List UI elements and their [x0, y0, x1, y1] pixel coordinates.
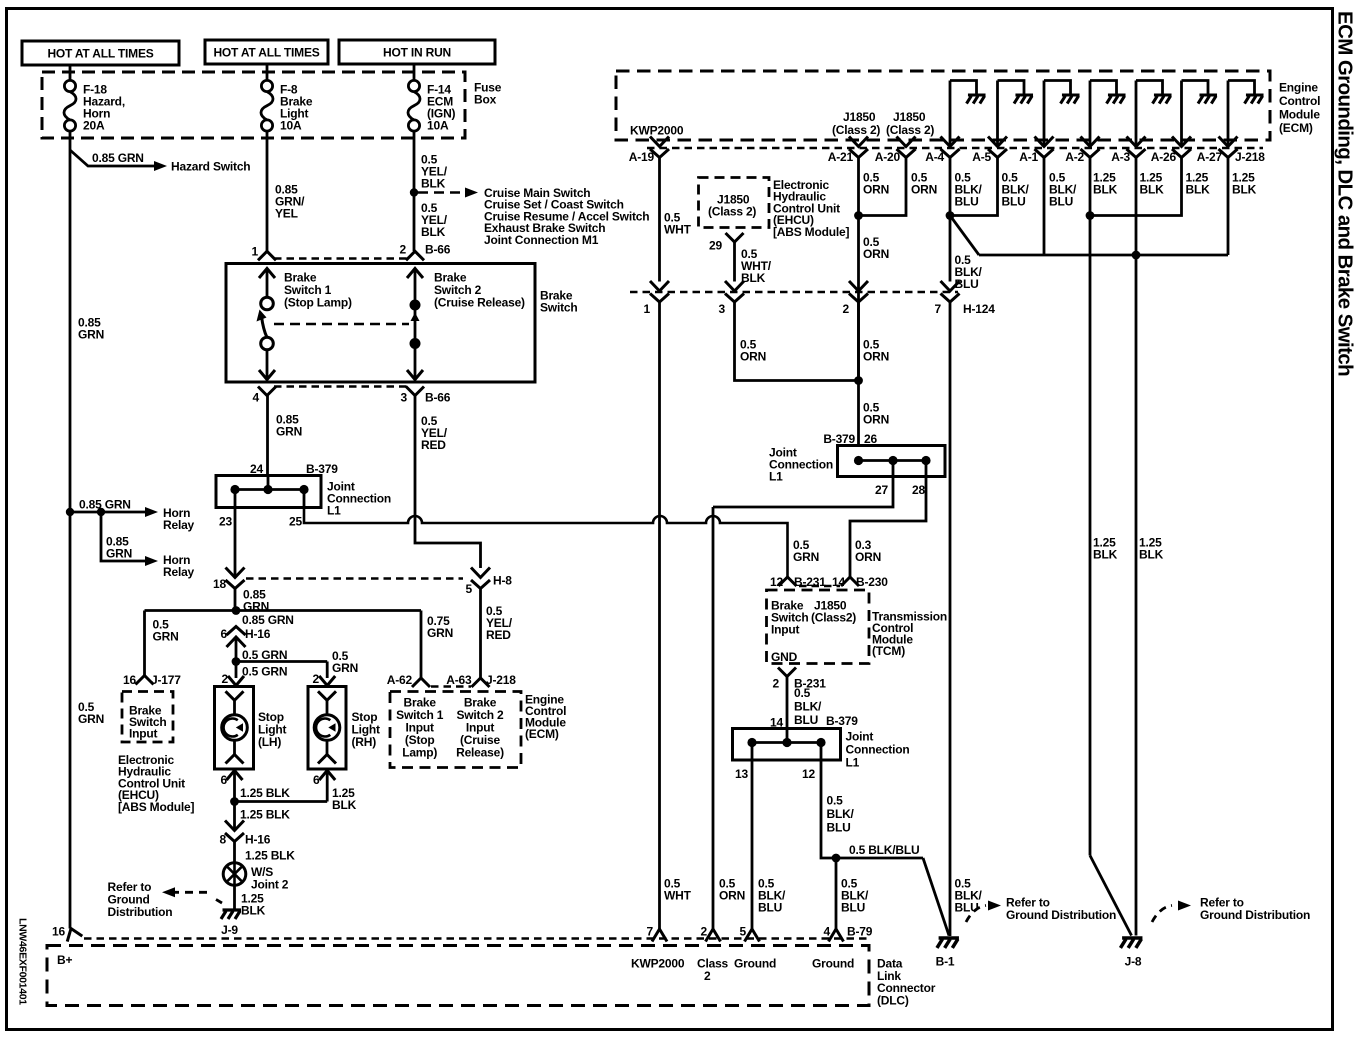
- EHCU pin 29: [726, 233, 744, 242]
- wire 0.5 BLK/BLU L1 pin 13 to DLC pin 5: [751, 760, 754, 929]
- wire 0.5 ORN A-20 join A-21: [859, 158, 907, 216]
- junction dot: [832, 854, 841, 863]
- svg-text:(ECM): (ECM): [525, 727, 559, 741]
- svg-text:6: 6: [221, 773, 228, 787]
- svg-text:J-177: J-177: [151, 673, 181, 687]
- svg-text:[ABS Module]: [ABS Module]: [118, 800, 194, 814]
- EHCU brake switch input box (dashed): [122, 692, 173, 743]
- svg-text:A-27: A-27: [1197, 150, 1223, 164]
- svg-text:YEL: YEL: [275, 207, 298, 221]
- ground return LH stop light: [227, 771, 243, 781]
- svg-text:B-379: B-379: [306, 462, 338, 476]
- ground return RH stop light: [319, 771, 335, 781]
- svg-text:BLU: BLU: [841, 901, 865, 915]
- junction dot pin 23: [230, 485, 239, 494]
- diagonal wire to ground B-1: [923, 858, 949, 936]
- BLK join horizontal: [979, 254, 1228, 257]
- brake switch 2 (cruise release) contacts: [407, 269, 423, 279]
- junction dot: [854, 376, 863, 385]
- svg-text:B-1: B-1: [936, 955, 955, 969]
- ground join horizontal wire: [235, 800, 328, 803]
- svg-text:12: 12: [802, 767, 815, 781]
- wire 0.5 WHT ECM A-19 to DLC pin 7: [658, 158, 661, 282]
- svg-text:Switch: Switch: [540, 301, 577, 315]
- svg-text:6: 6: [313, 773, 320, 787]
- svg-text:25: 25: [289, 515, 302, 529]
- svg-text:Joint: Joint: [846, 730, 874, 744]
- cruise branch dashed wire: [418, 191, 464, 194]
- svg-text:10A: 10A: [280, 119, 302, 133]
- svg-text:KWP2000: KWP2000: [631, 957, 685, 971]
- svg-text:Module: Module: [1279, 108, 1320, 122]
- svg-text:HOT AT ALL TIMES: HOT AT ALL TIMES: [47, 47, 153, 61]
- svg-text:(DLC): (DLC): [877, 993, 909, 1007]
- svg-text:ORN: ORN: [740, 350, 766, 364]
- svg-text:Ground Distribution: Ground Distribution: [1200, 908, 1310, 922]
- inline connector 6 H-16 (flipped): [227, 627, 246, 648]
- TCM pin 2 B-231 (GND): [778, 668, 796, 677]
- DLC pin 5 Ground: [745, 929, 760, 942]
- svg-text:J-218: J-218: [1235, 150, 1265, 164]
- ECM internal ground: [1198, 95, 1217, 104]
- wire 1.25 BLK (A-3 group) down to ground J-8: [1135, 158, 1138, 936]
- connector A-63 / J-218 at ECM: [472, 678, 490, 687]
- svg-text:2: 2: [313, 672, 320, 686]
- inline connector 5 H-8: [471, 568, 490, 589]
- svg-text:BLK: BLK: [241, 904, 266, 918]
- svg-text:ORN: ORN: [855, 550, 881, 564]
- svg-text:4: 4: [824, 925, 831, 939]
- harness boundary (dashed) at brake switch bottom: [274, 385, 407, 388]
- svg-text:A-19: A-19: [629, 150, 655, 164]
- data link connector DLC box (dashed): [47, 946, 869, 1006]
- svg-text:3: 3: [401, 391, 408, 405]
- svg-text:7: 7: [935, 302, 942, 316]
- ground B-1: [937, 938, 959, 948]
- svg-text:1: 1: [644, 302, 651, 316]
- wire 0.5 BLK/BLU A-5 join A-4: [950, 158, 998, 216]
- svg-text:5: 5: [466, 582, 473, 596]
- wire 0.85 GRN from fuse F-18 down to DLC pin 16: [69, 138, 72, 929]
- connector pin 1 at brake switch: [258, 251, 276, 260]
- svg-text:ORN: ORN: [719, 889, 745, 903]
- svg-text:GRN: GRN: [78, 712, 104, 726]
- junction dot stop light split: [232, 657, 241, 666]
- connector A-19: [650, 137, 669, 158]
- svg-text:2: 2: [843, 302, 850, 316]
- svg-text:8: 8: [220, 833, 227, 847]
- svg-text:BLU: BLU: [955, 195, 979, 209]
- svg-text:BLK: BLK: [1093, 548, 1118, 562]
- svg-text:ORN: ORN: [863, 183, 889, 197]
- svg-text:0.85 GRN: 0.85 GRN: [92, 151, 144, 165]
- svg-text:0.5 GRN: 0.5 GRN: [242, 665, 287, 679]
- svg-text:ORN: ORN: [863, 247, 889, 261]
- svg-text:Engine: Engine: [1279, 81, 1318, 95]
- svg-text:A-5: A-5: [972, 150, 991, 164]
- svg-text:Joint 2: Joint 2: [251, 878, 289, 892]
- TCM pin 14 B-230: [841, 577, 859, 586]
- svg-text:23: 23: [219, 515, 232, 529]
- svg-text:1.25 BLK: 1.25 BLK: [240, 786, 290, 800]
- svg-text:BLK: BLK: [421, 177, 446, 191]
- wire 0.85 GRN pin 23 down to connector 18: [234, 508, 237, 577]
- svg-text:Lamp): Lamp): [402, 746, 437, 760]
- fuse box (dashed): [42, 72, 465, 138]
- svg-text:GRN: GRN: [332, 661, 358, 675]
- svg-text:Connection: Connection: [846, 743, 910, 757]
- wire 0.5 BLK/BLU TCM GND to L1 pin 14: [786, 677, 789, 729]
- svg-text:A-21: A-21: [828, 150, 854, 164]
- junction dot: [1086, 211, 1095, 220]
- refer to ground distribution (B-1) dashed arrow: [966, 906, 986, 923]
- joint connection L1 connector B-379 (upper left): [216, 476, 321, 508]
- DLC harness dashed rail: [84, 937, 869, 940]
- stop light LH bulb: [226, 691, 244, 700]
- svg-text:BLU: BLU: [758, 901, 782, 915]
- svg-text:GRN: GRN: [793, 550, 819, 564]
- svg-text:BLK: BLK: [1093, 183, 1118, 197]
- svg-text:0.85 GRN: 0.85 GRN: [79, 498, 131, 512]
- svg-text:GRN: GRN: [78, 328, 104, 342]
- ECM internal ground: [1014, 95, 1033, 104]
- diagonal join: [950, 216, 979, 256]
- ground J-9: [221, 910, 241, 919]
- svg-text:28: 28: [912, 483, 925, 497]
- ECM internal ground: [1153, 95, 1172, 104]
- svg-text:GND: GND: [771, 650, 798, 664]
- svg-text:BLK: BLK: [1140, 183, 1165, 197]
- harness boundary (dashed) at brake switch top: [274, 257, 407, 260]
- svg-text:Box: Box: [474, 93, 497, 107]
- svg-text:L1: L1: [846, 756, 860, 770]
- svg-text:Ground: Ground: [812, 957, 854, 971]
- svg-text:B-66: B-66: [425, 391, 451, 405]
- ECM harness dashed rail: [647, 147, 1263, 150]
- ECM internal ground: [1245, 95, 1264, 104]
- junction dot pin 24: [263, 485, 272, 494]
- svg-text:A-20: A-20: [875, 150, 901, 164]
- wire 0.5 BLK/BLU to DLC pin 4: [835, 858, 838, 929]
- svg-text:WHT: WHT: [664, 223, 692, 237]
- svg-text:BLU: BLU: [955, 901, 979, 915]
- junction dot: [1132, 251, 1141, 260]
- ECM internal ground: [1061, 95, 1080, 104]
- svg-text:GRN: GRN: [276, 424, 302, 438]
- ECM ground pin A-4: [949, 81, 952, 147]
- wire 1.25 BLK A-2: [1089, 158, 1092, 216]
- inline connector 1: [650, 281, 669, 302]
- EHCU J1850 box (dashed): [699, 178, 770, 228]
- ECM ground pin A-26: [1180, 81, 1183, 147]
- wire 0.5 WHT/BLK pin 29 down: [733, 242, 736, 282]
- svg-text:GRN: GRN: [153, 629, 179, 643]
- svg-text:J1850: J1850: [843, 110, 876, 124]
- svg-text:0.5: 0.5: [827, 794, 844, 808]
- svg-text:18: 18: [213, 577, 226, 591]
- svg-text:2: 2: [400, 243, 407, 257]
- harness dashes at A-62/A-63: [431, 685, 471, 688]
- fuse F-14 ECM (IGN) 10A: [413, 64, 416, 81]
- svg-text:BLK: BLK: [1232, 183, 1257, 197]
- svg-text:Hazard Switch: Hazard Switch: [171, 160, 250, 174]
- junction dot at H-16 wire: [232, 606, 241, 615]
- svg-text:B-379: B-379: [823, 432, 855, 446]
- inline connector 3: [725, 281, 744, 302]
- svg-text:BLU: BLU: [1049, 195, 1073, 209]
- wire 0.85 GRN distribution (horizontal): [145, 609, 422, 612]
- svg-text:0.85 GRN: 0.85 GRN: [242, 613, 294, 627]
- wire 0.5 YEL/RED H-8 down to ECM A-63: [479, 589, 482, 679]
- ECM ground pin A-1: [1043, 81, 1046, 147]
- svg-text:J1850: J1850: [893, 110, 926, 124]
- svg-text:(Cruise Release): (Cruise Release): [434, 296, 525, 310]
- svg-text:(Class 2): (Class 2): [708, 205, 756, 219]
- DLC pin 4 Ground B-79: [829, 929, 844, 942]
- DLC pin 2 Class 2: [706, 929, 721, 942]
- stop light RH bulb: [318, 691, 336, 700]
- svg-text:L1: L1: [327, 504, 341, 518]
- wire 0.5 BLK/BLU A-4: [949, 158, 952, 216]
- junction dot: [854, 211, 863, 220]
- wire to LH stop light: [235, 662, 238, 679]
- svg-text:(Class 2): (Class 2): [832, 123, 880, 137]
- svg-text:Release): Release): [456, 746, 504, 760]
- svg-text:GRN: GRN: [106, 546, 132, 560]
- wire from connector 18 to GRN distribution: [234, 589, 237, 612]
- fuse F-8 Brake Light 10A: [266, 64, 269, 81]
- svg-text:J-218: J-218: [486, 673, 516, 687]
- svg-text:12: 12: [770, 575, 783, 589]
- svg-text:BLK: BLK: [1186, 183, 1211, 197]
- harness dashes at TCM pins: [799, 585, 840, 588]
- wire 1.25 BLK (A-2 group) down to ground J-8: [1089, 216, 1092, 856]
- svg-text:Ground: Ground: [734, 957, 776, 971]
- refer to ground distribution (J-9) dashed arrow: [212, 897, 222, 903]
- connector pin 4 at brake switch bottom: [258, 387, 276, 396]
- svg-text:HOT AT ALL TIMES: HOT AT ALL TIMES: [213, 46, 319, 60]
- svg-text:A-26: A-26: [1151, 150, 1177, 164]
- wire H-16 to stop light junction: [235, 639, 238, 662]
- svg-text:RED: RED: [486, 628, 511, 642]
- power feed label: HOT IN RUN: [339, 40, 495, 64]
- svg-text:16: 16: [52, 925, 65, 939]
- svg-text:B-66: B-66: [425, 243, 451, 257]
- svg-text:0.5 GRN: 0.5 GRN: [242, 648, 287, 662]
- junction dot pin 26: [854, 456, 863, 465]
- svg-text:A-3: A-3: [1111, 150, 1130, 164]
- svg-text:0.5: 0.5: [794, 686, 811, 700]
- wire to horn relay 1: [70, 511, 148, 514]
- svg-text:B-79: B-79: [847, 925, 873, 939]
- svg-text:2: 2: [773, 677, 780, 691]
- wire to RH stop light: [326, 662, 329, 679]
- svg-text:Input: Input: [129, 727, 158, 741]
- wire 0.5 BLK/BLU pin 12 to DLC pin 4 and B-1: [821, 760, 923, 858]
- svg-text:2: 2: [701, 925, 708, 939]
- stop light RH box: [308, 687, 346, 770]
- junction dot (cruise branch): [410, 188, 418, 196]
- svg-text:2: 2: [704, 969, 711, 983]
- svg-text:(LH): (LH): [258, 735, 281, 749]
- ECM internal ground: [967, 95, 986, 104]
- diagonal to ground J-8: [1090, 856, 1132, 936]
- connector 16 J-177 at EHCU: [136, 676, 154, 685]
- wire 1.25 BLK down to connector 8: [233, 802, 236, 830]
- svg-text:BLU: BLU: [955, 277, 979, 291]
- junction dot pin 14: [782, 738, 791, 747]
- svg-text:BLK: BLK: [421, 225, 446, 239]
- transmission control module TCM box (dashed): [767, 590, 870, 664]
- stop light feed horizontal: [236, 660, 327, 663]
- wire 0.5 YEL/BLK from fuse F-14 to brake switch pin 2: [413, 138, 416, 251]
- junction dot pin 25: [299, 485, 308, 494]
- weld splice W/S Joint 2: [223, 863, 246, 886]
- svg-text:16: 16: [123, 673, 136, 687]
- svg-text:(Stop Lamp): (Stop Lamp): [284, 296, 352, 310]
- stop light LH box: [215, 687, 254, 770]
- connector pin 3 B-66 at brake switch bottom: [406, 387, 424, 396]
- inline connector 7 H-124: [941, 281, 960, 302]
- svg-text:B-230: B-230: [856, 575, 888, 589]
- svg-text:A-63: A-63: [446, 673, 472, 687]
- power feed label: HOT AT ALL TIMES (center): [205, 40, 328, 64]
- svg-text:13: 13: [735, 767, 748, 781]
- svg-text:J-9: J-9: [221, 923, 238, 937]
- svg-text:0.5 BLK/BLU: 0.5 BLK/BLU: [849, 843, 919, 857]
- svg-text:27: 27: [875, 483, 888, 497]
- inline connector 8 H-16: [225, 821, 244, 842]
- ECM ground pin A-5: [996, 81, 999, 147]
- svg-text:RED: RED: [421, 438, 446, 452]
- svg-text:LNW46EXF001401: LNW46EXF001401: [17, 918, 29, 1005]
- svg-text:(Class2): (Class2): [811, 611, 856, 625]
- brake signal wire 0.85 GRN pin 25 to TCM pin 12 (with hops): [304, 508, 788, 578]
- svg-text:[ABS Module]: [ABS Module]: [773, 225, 849, 239]
- DLC pin 7 KWP2000: [652, 929, 667, 942]
- svg-text:H-16: H-16: [245, 627, 271, 641]
- svg-text:ORN: ORN: [863, 350, 889, 364]
- junction dot: [946, 211, 955, 220]
- wire 0.5 YEL/RED pin 3 toward H-8: [415, 396, 481, 569]
- svg-text:14: 14: [770, 716, 783, 730]
- svg-text:BLU: BLU: [794, 713, 818, 727]
- svg-text:4: 4: [253, 391, 260, 405]
- svg-text:WHT: WHT: [664, 889, 692, 903]
- svg-text:(RH): (RH): [352, 735, 377, 749]
- joint connection L1 connector B-379 (upper right): [838, 446, 946, 477]
- ECM ground pin A-27 / J-218: [1227, 81, 1230, 147]
- svg-text:H-16: H-16: [245, 833, 271, 847]
- wire Class 2 serial data to DLC pin 2: [712, 507, 715, 929]
- wire 0.5 ORN A-21 down to L1 pin 26: [857, 158, 860, 446]
- connector 16 at DLC: [63, 926, 82, 942]
- wire 0.5 BLK/BLU A-1 down to BLK join: [1043, 158, 1046, 256]
- wire to horn relay 2: [101, 512, 148, 561]
- wire 0.3 ORN L1 pin 28 to TCM pin 14: [850, 477, 926, 578]
- connector pin 2 B-66 at brake switch: [406, 251, 424, 260]
- svg-text:BLK/: BLK/: [827, 807, 855, 821]
- svg-text:Joint Connection M1: Joint Connection M1: [484, 233, 599, 247]
- svg-text:B-231: B-231: [794, 575, 826, 589]
- wire 0.5 GRN to EHCU J-177: [143, 611, 146, 676]
- svg-text:10A: 10A: [427, 119, 449, 133]
- ECM internal ground: [1107, 95, 1126, 104]
- wire 1.25 BLK to ground J-9: [233, 885, 236, 909]
- wire 0.5 BLK/BLU H-124 pin 7 down to ground B-1: [949, 302, 952, 936]
- svg-text:2: 2: [222, 672, 229, 686]
- junction dot pin 12: [816, 738, 825, 747]
- svg-text:BLK/: BLK/: [794, 700, 822, 714]
- wire to W/S splice: [233, 842, 236, 864]
- svg-text:Input: Input: [771, 623, 800, 637]
- fuse F-18 Hazard, Horn 20A: [69, 66, 72, 81]
- svg-text:BLK: BLK: [1139, 548, 1164, 562]
- svg-text:29: 29: [709, 239, 722, 253]
- svg-text:H-124: H-124: [963, 302, 995, 316]
- svg-text:Relay: Relay: [163, 565, 195, 579]
- svg-text:ORN: ORN: [911, 183, 937, 197]
- junction dot ground join: [230, 797, 239, 806]
- svg-text:Distribution: Distribution: [108, 905, 173, 919]
- ground J-8: [1120, 938, 1142, 948]
- svg-text:ECM Grounding, DLC and Brake S: ECM Grounding, DLC and Brake Switch: [1334, 11, 1357, 376]
- svg-text:GRN: GRN: [427, 626, 453, 640]
- engine control module ECM box (dashed, top): [616, 71, 1270, 140]
- ECM ground pin A-3: [1135, 81, 1138, 147]
- junction dot pin 28: [921, 456, 930, 465]
- svg-text:HOT IN RUN: HOT IN RUN: [383, 46, 451, 60]
- wire 0.85 GRN/YEL from fuse F-8 to brake switch pin 1: [266, 138, 269, 251]
- junction dot pin 27: [888, 456, 897, 465]
- brake switch box: [226, 264, 535, 383]
- connector A-21: [849, 137, 868, 158]
- svg-text:ORN: ORN: [863, 413, 889, 427]
- svg-text:1.25 BLK: 1.25 BLK: [245, 849, 295, 863]
- svg-text:BLU: BLU: [827, 821, 851, 835]
- junction dot (horn relay 2 branch): [97, 508, 105, 516]
- svg-text:7: 7: [647, 925, 654, 939]
- svg-text:20A: 20A: [83, 119, 105, 133]
- ECM box (dashed, lower) with brake switch inputs: [390, 692, 521, 768]
- junction dot (horn relay feed): [66, 508, 74, 516]
- wire continues to H-124 pin 7: [949, 216, 952, 282]
- svg-text:(TCM): (TCM): [872, 644, 905, 658]
- svg-text:Ground Distribution: Ground Distribution: [1006, 908, 1116, 922]
- svg-text:Control: Control: [1279, 94, 1320, 108]
- switch coupling dashed link: [274, 323, 409, 326]
- wire 1.25 BLK A-27 to BLK join: [1227, 158, 1230, 256]
- power feed label: HOT AT ALL TIMES (left): [22, 41, 179, 65]
- svg-text:A-4: A-4: [925, 150, 944, 164]
- TCM pin 12 B-231: [779, 577, 797, 586]
- hazard switch branch wire: [70, 150, 156, 166]
- svg-text:J-8: J-8: [1125, 955, 1142, 969]
- svg-text:H-8: H-8: [493, 574, 512, 588]
- junction dot pin 13: [747, 738, 756, 747]
- brake switch 1 (stop lamp) contacts: [259, 269, 275, 279]
- svg-text:A-62: A-62: [387, 673, 413, 687]
- svg-text:(Class 2): (Class 2): [886, 123, 934, 137]
- wire 0.85 GRN pin 4 to joint connection L1: [266, 396, 269, 476]
- svg-text:L1: L1: [769, 470, 783, 484]
- svg-text:24: 24: [250, 462, 263, 476]
- wire 0.5 ORN pin 3 join pin 2: [735, 302, 859, 381]
- svg-text:3: 3: [719, 302, 726, 316]
- svg-text:5: 5: [740, 925, 747, 939]
- svg-text:KWP2000: KWP2000: [630, 124, 684, 138]
- refer to ground distribution (J-8) dashed arrow: [1152, 906, 1172, 923]
